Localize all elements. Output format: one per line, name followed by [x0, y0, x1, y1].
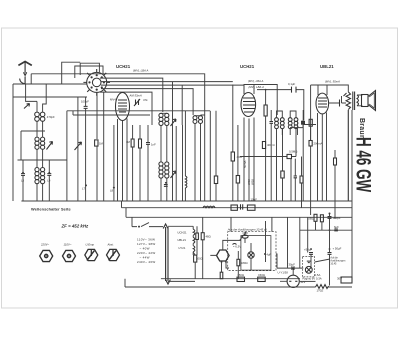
svg-text:~ 44W: ~ 44W: [140, 256, 150, 260]
resistor det load: [281, 171, 284, 178]
svg-text:(MV), LBA d: (MV), LBA d: [249, 85, 265, 89]
svg-text:1M: 1M: [99, 142, 104, 146]
knob 1: [40, 250, 53, 261]
IF T3 wires: [271, 110, 303, 201]
svg-text:0,5A: 0,5A: [315, 273, 321, 277]
svg-text:40Ω: 40Ω: [237, 155, 242, 159]
resistor UBL box: [314, 214, 317, 221]
wire x287.5 rectifier feed: [287, 217, 289, 268]
tube UCH21 V2: [241, 93, 256, 117]
tube V2 pin wires: [244, 118, 254, 202]
dashed box 2 scale lamp: [302, 256, 314, 277]
IF T3 coil right: [288, 118, 298, 129]
svg-text:(MV), LBA A: (MV), LBA A: [133, 69, 148, 73]
resistor heater lower: [194, 255, 197, 262]
tube UBL21: [316, 93, 329, 114]
wire bus d: [101, 85, 244, 125]
oscillator coil loop box above socket: [75, 63, 103, 78]
wire x232.8: [232, 85, 234, 202]
resistor 57ohm: [334, 158, 337, 165]
svg-text:50mA: 50mA: [243, 161, 247, 168]
svg-text:42V: 42V: [301, 280, 306, 284]
knob 2: [63, 250, 76, 261]
arch wire over V3: [318, 85, 327, 95]
svg-text:L7: L7: [82, 187, 86, 191]
grid resistor V3: [309, 119, 312, 126]
wire x291: [290, 159, 292, 201]
tone capacitor: [340, 93, 347, 107]
svg-text:6µF: 6µF: [334, 225, 339, 229]
svg-text:(MV), 50mA: (MV), 50mA: [325, 80, 340, 84]
resistor on bus2 a: [231, 205, 237, 210]
wire x140: [139, 125, 141, 201]
svg-text:100pF: 100pF: [81, 100, 89, 104]
wire bottom 278: [161, 278, 300, 280]
capacitor 1nF: [146, 143, 150, 145]
grid capacitor V3: [301, 121, 305, 125]
svg-text:H 46 GW: H 46 GW: [352, 137, 376, 192]
resistor x97: [95, 140, 98, 146]
wire mains to heater: [168, 226, 195, 281]
wire antenna drop to coil: [26, 84, 37, 112]
svg-text:UBL21: UBL21: [320, 64, 334, 69]
svg-text:UCH21: UCH21: [240, 64, 255, 69]
wire heater down: [193, 252, 195, 279]
wire x265.6: [265, 90, 267, 201]
svg-text:1nF: 1nF: [151, 143, 156, 147]
wire x85: [85, 97, 87, 201]
capacitor 6uF: [334, 229, 338, 231]
svg-text:0,1µF: 0,1µF: [288, 82, 295, 86]
pointer line caption: [240, 232, 247, 241]
wire x132.6: [132, 125, 134, 201]
node line 268: [277, 267, 303, 269]
wire bus b: [100, 78, 163, 112]
svg-text:110V~: 110V~: [64, 243, 72, 247]
svg-text:UBL21: UBL21: [177, 238, 186, 242]
wire bus a: [31, 74, 205, 201]
arch wire over V2: [244, 85, 277, 116]
socket UCH21 circle: [83, 69, 110, 96]
svg-text:AM 53mA: AM 53mA: [129, 94, 142, 98]
output transformer T-out: [346, 92, 358, 111]
choke x185.4: [185, 176, 187, 188]
svg-text:170Ω: 170Ω: [317, 289, 324, 293]
box frame around coils: [18, 131, 67, 160]
resistor box 150b: [258, 277, 266, 281]
wire x210.3: [209, 111, 211, 201]
svg-text:48Ω: 48Ω: [206, 235, 211, 239]
resistor 40 ohm: [231, 152, 234, 161]
knob5 pins: [221, 261, 223, 263]
left block vertical wires: [23, 84, 49, 201]
svg-text:10µF: 10µF: [251, 198, 258, 202]
svg-text:MV4: MV4: [110, 98, 116, 102]
resistor 180ohm: [237, 259, 240, 266]
svg-text:Braun: Braun: [358, 118, 365, 139]
bus 1: [21, 200, 352, 202]
bus 3: [126, 208, 352, 218]
knob 3: [85, 249, 98, 260]
lamp L1: [248, 252, 254, 258]
capacitor right small: [48, 172, 50, 174]
resistor on bus2 b: [247, 205, 255, 210]
right rail: [351, 110, 353, 281]
capacitor 0.1uF: [292, 87, 297, 93]
resistor low b: [300, 176, 303, 183]
resistor on x237.9: [236, 176, 239, 184]
voltage table: [137, 238, 155, 265]
wire x295.3: [294, 159, 296, 201]
resistor 400ohm: [262, 142, 265, 149]
antenna: [18, 62, 31, 85]
wire x348.3 lower: [347, 110, 349, 201]
tuned coil pair L2: [35, 137, 45, 149]
bus 2: [122, 201, 353, 208]
svg-text:47k: 47k: [143, 98, 148, 102]
svg-text:L8: L8: [110, 189, 114, 193]
svg-text:1M: 1M: [126, 140, 131, 144]
svg-text:Pygmy 6V 0,3A: Pygmy 6V 0,3A: [302, 277, 321, 281]
speaker: [362, 91, 376, 111]
IF T1 top coil pair: [159, 113, 176, 126]
wire x103.7: [103, 92, 105, 201]
mains double line with arrows: [163, 224, 170, 284]
resistor x322: [320, 215, 323, 222]
osc coil wires: [195, 115, 205, 201]
capacitor x85: [84, 106, 88, 108]
svg-text:UBL: UBL: [308, 217, 314, 221]
IF T1 wires: [161, 112, 176, 201]
tube V1 pin wires: [118, 119, 128, 202]
resistor x140: [139, 139, 142, 148]
volume pot line: [240, 156, 296, 158]
zigzag resistor 170: [316, 285, 329, 289]
svg-text:UY21: UY21: [178, 246, 185, 250]
wire x216: [215, 111, 217, 201]
resistor small x223: [220, 272, 223, 279]
pot box: [287, 154, 292, 158]
wire from left into nest: [13, 62, 87, 97]
IF T3 coil left: [275, 118, 285, 129]
svg-text:100Ω: 100Ω: [196, 257, 203, 261]
svg-text:UCH21: UCH21: [116, 64, 131, 69]
wire bus f: [100, 92, 152, 125]
svg-text:127V~ 38W: 127V~ 38W: [137, 242, 155, 246]
wires right psu verticals: [300, 213, 330, 286]
wire det load: [282, 128, 284, 201]
svg-text:Wellenschalter Seite: Wellenschalter Seite: [31, 207, 72, 212]
svg-text:ZF = 452 kHz: ZF = 452 kHz: [61, 223, 90, 228]
wire x97: [96, 92, 98, 201]
dashed box 1: [228, 232, 276, 271]
wire x335: [334, 150, 336, 219]
svg-text:10,45: 10,45: [330, 263, 337, 266]
wire x197: [196, 226, 198, 255]
resistor left small: [196, 233, 199, 240]
svg-text:150Ω: 150Ω: [258, 273, 265, 277]
transformer wires: [323, 85, 363, 201]
arrow on antenna drop: [24, 104, 30, 109]
svg-text:U.Emp: U.Emp: [86, 242, 95, 246]
wire right bottom: [300, 280, 316, 282]
capacitor low a: [294, 176, 297, 178]
junction dot L7: [85, 184, 87, 186]
knob 5 hexagon: [217, 250, 230, 261]
svg-text:+ 50µF: + 50µF: [333, 247, 342, 251]
wire bus c: [101, 82, 233, 112]
svg-text:+50µF: +50µF: [333, 216, 341, 220]
wire x202.7: [202, 217, 204, 278]
svg-text:Abst.: Abst.: [107, 242, 115, 246]
wire x297.5 b: [297, 120, 299, 135]
choke on bus2: [203, 206, 215, 208]
mains switch: [132, 217, 163, 226]
svg-text:220V~ 42W: 220V~ 42W: [137, 251, 155, 255]
capacitor C40: [242, 235, 248, 238]
capacitor 10uF on bus2: [241, 204, 243, 209]
wire plug: [280, 268, 293, 281]
heater chain wire: [192, 226, 194, 255]
tube UCH21 V1: [116, 93, 130, 121]
resistor on x216: [214, 176, 217, 184]
svg-text:4µF: 4µF: [266, 253, 271, 257]
svg-text:470pF: 470pF: [47, 115, 55, 119]
wire left rail: [12, 84, 14, 201]
lamp scale: [305, 266, 312, 273]
wire x310.6: [310, 85, 312, 215]
resistor 48ohm box: [201, 233, 204, 240]
capacitor 30uF: [292, 266, 294, 270]
pointer line: [315, 259, 330, 262]
electrolytic 50uF top: [328, 217, 332, 219]
wire x301.5: [301, 157, 303, 208]
wire x277: [276, 254, 277, 268]
svg-text:200mA: 200mA: [314, 142, 323, 146]
tuning arrow L2: [47, 142, 53, 150]
wire avc line: [67, 111, 210, 201]
svg-text:180Ω: 180Ω: [241, 261, 248, 265]
dashed box wires: [231, 217, 272, 278]
padder capacitor coils L3: [35, 168, 45, 184]
resistor box 150a: [237, 277, 245, 281]
anode wire V2 with cap: [257, 90, 304, 120]
label Auf die Ausfuehrungen: [330, 257, 346, 266]
svg-text:0,5MΩ: 0,5MΩ: [289, 150, 297, 154]
svg-text:110V~ 36W: 110V~ 36W: [137, 238, 155, 242]
wire x237.9: [237, 125, 239, 201]
knob 4: [107, 249, 120, 260]
wire x148: [147, 125, 149, 201]
inner box: [241, 236, 271, 271]
IF T3 side caps: [270, 122, 306, 124]
wire line y115: [73, 111, 150, 115]
terminal box bottom right: [341, 277, 352, 283]
svg-text:220V~: 220V~: [40, 243, 50, 247]
tube V3 pin wires: [318, 113, 327, 202]
plug circle: [287, 275, 299, 287]
oscillator coil pair: [193, 116, 203, 124]
lamp top mark: [307, 261, 311, 263]
wire grid V3: [290, 121, 316, 141]
trimmer arrow x77.9: [75, 142, 82, 150]
wire B+ top: [311, 84, 349, 86]
svg-text:UCH21: UCH21: [177, 230, 187, 234]
wire x113.9 with dot: [113, 125, 115, 201]
wire antenna to socket: [13, 83, 87, 85]
svg-text:W58: W58: [251, 179, 255, 185]
antenna coil pair L1 (two 8-coils): [35, 112, 45, 121]
wire bottom 285: [125, 279, 352, 287]
heater chain coils: [193, 229, 195, 252]
anode wire V3: [329, 96, 346, 103]
junction dot 4uF: [264, 253, 266, 255]
node line 230: [300, 229, 352, 231]
svg-text:240V~ 46W: 240V~ 46W: [137, 260, 155, 264]
electrolytic 50uF mid-left: [309, 253, 313, 255]
resistor 400ohm upper: [264, 105, 267, 116]
wire x185.4 with choke: [184, 111, 186, 201]
svg-text:30µF: 30µF: [289, 263, 296, 267]
electrolytic 50uF mid-right: [328, 253, 332, 255]
wire x182.5: [182, 125, 184, 201]
svg-text:(MV), LBA A: (MV), LBA A: [248, 79, 263, 83]
svg-text:U-Y1/38: U-Y1/38: [278, 271, 289, 275]
wire x77.9: [77, 97, 79, 201]
svg-text:~ 40W: ~ 40W: [140, 247, 150, 251]
capacitor at 165.5: [165, 182, 167, 184]
capacitor left small: [22, 172, 24, 174]
trimmer cap near V1: [134, 99, 140, 106]
fuse 200mA: [309, 141, 312, 147]
resistor 1M a: [131, 139, 134, 147]
IF T1 bottom coil pair: [159, 162, 176, 178]
wire bus e: [101, 89, 193, 115]
svg-text:≈ 6,3V: ≈ 6,3V: [233, 245, 241, 249]
